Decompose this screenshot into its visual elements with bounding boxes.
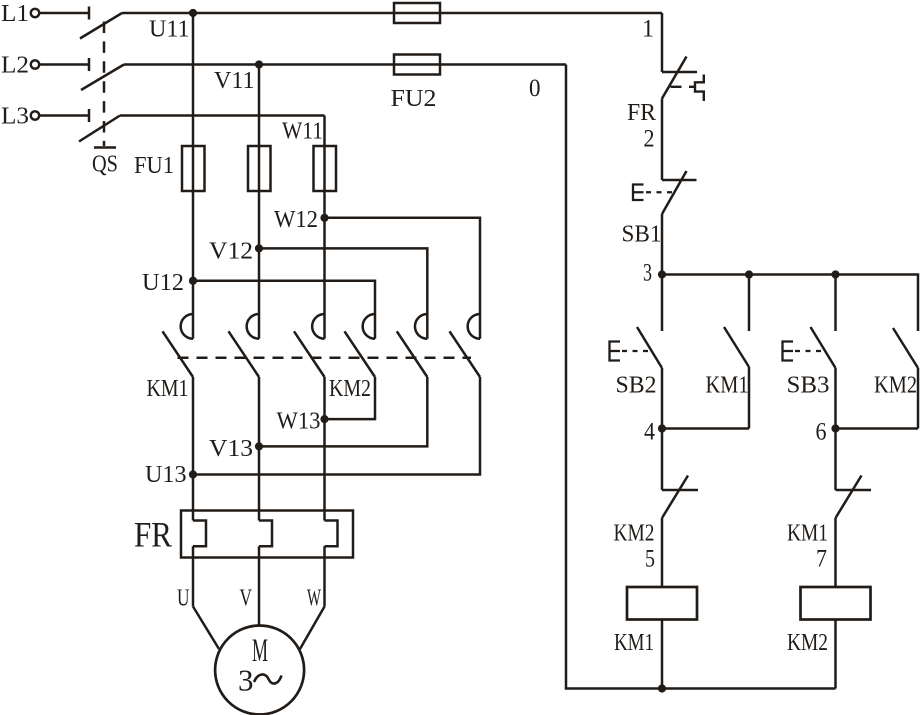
wire U phase lower: [192, 377, 195, 521]
svg-text:KM2: KM2: [614, 521, 655, 547]
wire U12 to KM2 contact 4: [193, 281, 375, 339]
svg-text:KM1: KM1: [787, 521, 828, 547]
coil KM1: [614, 587, 697, 656]
svg-text:SB3: SB3: [787, 373, 830, 399]
svg-text:V: V: [240, 586, 253, 612]
svg-text:U: U: [177, 586, 190, 612]
node U12: [142, 270, 197, 296]
node U13: [145, 462, 197, 488]
svg-text:KM1: KM1: [614, 630, 654, 656]
wire 6 branch: [816, 368, 919, 490]
svg-text:1: 1: [642, 16, 654, 43]
fuse FU1 phase V: [248, 146, 271, 191]
svg-text:V11: V11: [214, 68, 255, 94]
terminal L1: [1, 1, 89, 27]
start button SB2: [610, 327, 663, 399]
disconnect switch QS: [79, 13, 124, 178]
svg-text:U12: U12: [142, 270, 184, 296]
start button SB3: [783, 327, 836, 399]
thermal relay FR NC contact: [627, 57, 704, 153]
motor lead V: [240, 546, 260, 625]
wire 4 branch: [644, 367, 749, 490]
thermal relay FR heater block: [134, 511, 353, 558]
node W13: [277, 409, 329, 435]
svg-text:2: 2: [644, 126, 655, 153]
contactor KM2 main contacts: [329, 314, 480, 402]
svg-text:FR: FR: [134, 515, 172, 555]
svg-text:QS: QS: [92, 152, 118, 178]
terminal L2: [1, 53, 89, 79]
svg-text:W: W: [307, 586, 321, 612]
wire KM2 contact 4 to W13: [325, 377, 376, 419]
mechanical linkage dashed line: [178, 357, 472, 360]
wire V phase upper: [258, 65, 261, 339]
svg-text:7: 7: [816, 546, 827, 573]
wire V phase lower: [258, 377, 261, 521]
fuse FU1 phase U: [182, 146, 205, 191]
stop button SB1: [622, 171, 697, 248]
wire 5: [661, 518, 664, 587]
svg-text:SB1: SB1: [622, 222, 662, 248]
wire 3: [643, 214, 666, 331]
svg-text:U11: U11: [149, 17, 190, 43]
svg-text:V12: V12: [209, 239, 253, 265]
wire 0: [529, 65, 836, 693]
svg-text:V13: V13: [209, 436, 253, 462]
motor lead W: [300, 546, 325, 649]
fuse FU1 phase W: [314, 146, 337, 191]
svg-text:L2: L2: [1, 53, 29, 79]
svg-text:W11: W11: [282, 119, 323, 145]
svg-text:KM2: KM2: [874, 373, 917, 399]
svg-text:KM2: KM2: [787, 630, 828, 656]
fuse FU2 (upper): [394, 3, 440, 23]
KM1 NC interlock contact: [787, 476, 871, 573]
svg-text:L3: L3: [1, 104, 29, 130]
node U11: [149, 9, 197, 43]
fuse FU2 (lower): [394, 55, 440, 75]
wire U phase upper: [192, 13, 195, 339]
motor lead U: [177, 546, 219, 649]
wire 2: [661, 99, 664, 181]
node W12: [274, 207, 329, 233]
svg-text:SB2: SB2: [616, 373, 657, 399]
svg-text:FU1: FU1: [134, 153, 174, 179]
svg-text:FR: FR: [627, 100, 656, 126]
svg-text:KM1: KM1: [147, 376, 189, 402]
svg-text:FU2: FU2: [391, 86, 437, 112]
svg-text:0: 0: [529, 75, 541, 102]
coil KM2: [787, 587, 871, 656]
KM2 auxiliary NO contact: [874, 328, 918, 399]
wire L3 bus: [120, 114, 325, 117]
svg-text:W13: W13: [277, 409, 321, 435]
terminal L3: [1, 104, 89, 130]
wire 1: [642, 13, 662, 72]
wire W12 to KM2 contact 6: [325, 218, 481, 339]
svg-text:L1: L1: [1, 1, 29, 27]
node V11: [214, 60, 263, 94]
svg-text:U13: U13: [145, 462, 187, 488]
svg-text:KM2: KM2: [329, 376, 371, 402]
svg-text:3: 3: [238, 663, 254, 698]
wire W phase lower: [323, 377, 326, 521]
svg-text:M: M: [252, 633, 268, 669]
svg-text:3: 3: [643, 260, 652, 287]
KM1 auxiliary NO contact: [706, 327, 750, 399]
motor M 3~: [215, 626, 304, 715]
wire coil KM2 to rail: [834, 620, 837, 689]
KM2 NC interlock contact: [614, 476, 699, 573]
node V13: [209, 436, 263, 462]
svg-text:5: 5: [645, 546, 655, 573]
wire L2 bus: [124, 63, 566, 66]
node V12: [209, 239, 263, 265]
wire coil KM1 to rail: [661, 620, 664, 689]
wire W phase upper: [323, 116, 326, 339]
svg-text:W12: W12: [274, 207, 318, 233]
svg-text:KM1: KM1: [706, 373, 749, 399]
contactor KM1 main contacts: [147, 314, 325, 402]
wire KM2 contact 6 to U13: [193, 377, 480, 475]
svg-text:4: 4: [644, 419, 655, 446]
wire 7: [834, 518, 837, 587]
node 3 rail: [662, 270, 918, 331]
wire KM2 contact 5 to V13: [259, 377, 427, 446]
svg-text:6: 6: [816, 419, 827, 446]
wire L1 bus: [122, 12, 662, 15]
wire V12 to KM2 contact 5: [259, 248, 427, 338]
